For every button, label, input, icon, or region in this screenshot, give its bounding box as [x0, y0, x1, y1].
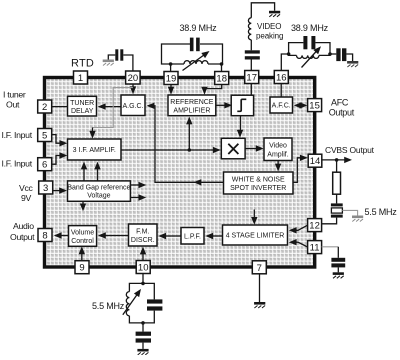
svg-text:20: 20: [128, 73, 139, 84]
capacitor C7: [147, 299, 162, 310]
ground (video peaking): [269, 11, 280, 17]
capacitor C5: [336, 48, 346, 61]
wire pin20 to AGC: [130, 85, 136, 95]
wire pin17 to limiter: [250, 84, 252, 96]
block A.G.C.: [121, 95, 145, 116]
svg-text:10: 10: [138, 263, 149, 274]
wire REFERENCE AMPLIFIER to limiter: [216, 102, 232, 108]
wire pin19 to REFERENCE AMPLIFIER: [168, 85, 174, 95]
node tank3 bottom junction: [141, 321, 145, 325]
node tank2 right junction: [328, 52, 332, 56]
wire junction to resistor R1: [336, 160, 338, 172]
svg-text:38.9 MHz: 38.9 MHz: [291, 23, 329, 33]
ground (tank 3): [137, 349, 148, 355]
svg-text:SPOT INVERTER: SPOT INVERTER: [230, 185, 286, 192]
capacitor C4: [303, 36, 315, 49]
svg-text:5: 5: [42, 131, 47, 142]
pin 9: [75, 261, 89, 274]
node tank1 left junction: [169, 62, 173, 66]
inductor L3 (variable): [297, 55, 319, 58]
wire stub into 4 STAGE LIMITER top: [251, 210, 257, 225]
svg-text:38.9 MHz: 38.9 MHz: [180, 23, 218, 33]
wire AGC feedback from WHITE &amp; NOISE: [147, 103, 224, 186]
wire C8 to ground: [142, 343, 144, 349]
resistor R1: [333, 172, 341, 194]
svg-text:Video: Video: [269, 143, 287, 150]
wire pin14 CVBS output arrow: [322, 157, 352, 163]
svg-text:11: 11: [310, 243, 320, 254]
wire pin16 to tank 2: [281, 54, 288, 71]
svg-text:6: 6: [42, 160, 47, 171]
svg-text:8: 8: [42, 231, 47, 242]
pin 16: [274, 71, 288, 84]
svg-text:Band Gap reference: Band Gap reference: [67, 184, 130, 191]
svg-text:peaking: peaking: [256, 31, 283, 40]
wire pin10 to tank 3: [142, 274, 144, 283]
tank circuit L3/C4 frame (pin 16): [289, 43, 330, 56]
block Video Amplif: [264, 138, 292, 161]
ground (pin7): [254, 302, 265, 308]
wire junction up to REFERENCE AMPLIFIER: [186, 117, 192, 150]
svg-text:18: 18: [216, 74, 227, 85]
wire limiter to multiplier: [237, 114, 243, 138]
block F.M. DISCR.: [129, 224, 158, 246]
pin 6: [38, 158, 52, 171]
svg-text:L.P.F.: L.P.F.: [184, 234, 201, 241]
tank circuit L1/C2 frame (pins 19-18): [162, 44, 223, 64]
node tank2 left junction: [287, 52, 291, 56]
pin 11: [308, 241, 322, 254]
wire tank1 to pin19: [170, 64, 172, 72]
svg-text:Amplif.: Amplif.: [267, 151, 288, 158]
svg-text:VIDEO: VIDEO: [257, 22, 281, 31]
wire Band Gap to IF amp right: [94, 162, 100, 181]
capacitor C1 (pin20 decoupling): [115, 49, 123, 60]
node tank1 right junction: [220, 62, 224, 66]
block WHITE &amp; NOISE SPOT INVERTER: [224, 172, 294, 194]
block L.P.F.: [181, 228, 204, 245]
inductor L2 (video peaking): [248, 18, 251, 40]
svg-text:Audio: Audio: [13, 221, 34, 231]
arrow of variable inductor L1: [183, 48, 212, 70]
pin 17: [245, 71, 259, 84]
svg-text:AFC: AFC: [331, 97, 349, 107]
arrow of variable inductor L4: [123, 287, 144, 315]
IC body U1: [45, 78, 315, 268]
svg-text:12: 12: [309, 221, 320, 232]
block multiplier X: [221, 138, 245, 159]
tank circuit L4/C7 frame (pin 10): [129, 283, 154, 323]
wire filter to pin12: [322, 218, 337, 224]
svg-text:Out: Out: [6, 100, 20, 110]
wire FM DISCR to Volume Control: [98, 232, 129, 238]
svg-text:9V: 9V: [21, 193, 32, 203]
inductor L4 (variable 5.5 MHz): [126, 292, 129, 316]
svg-text:2: 2: [42, 102, 47, 113]
wire pin11 to C6 (gray): [322, 246, 339, 248]
wire pin10 to FM DISCR: [140, 247, 146, 261]
svg-text:A.G.C.: A.G.C.: [122, 103, 143, 110]
wire pin16 to AFC block: [280, 84, 282, 97]
ceramic filter X1 5.5 MHz: [331, 203, 343, 217]
capacitor C2: [190, 38, 200, 52]
block A.F.C.: [270, 97, 293, 113]
svg-text:5.5 MHz: 5.5 MHz: [92, 301, 125, 311]
pin 5: [38, 129, 52, 142]
svg-text:Volume: Volume: [71, 229, 94, 236]
svg-text:3: 3: [43, 183, 48, 194]
arrow into 3 IF AMPLIF top: [89, 128, 95, 139]
wire multiplier to Video Amplif: [243, 145, 264, 151]
svg-text:4 STAGE LIMITER: 4 STAGE LIMITER: [226, 233, 285, 240]
wire Band Gap down stub: [80, 201, 86, 211]
pin 12: [308, 219, 322, 232]
wire pin3 to Band Gap: [53, 187, 68, 193]
label Vcc 9V: [19, 183, 34, 203]
svg-text:A.F.C.: A.F.C.: [272, 103, 291, 110]
pin 2: [38, 100, 52, 113]
wire R1 to ceramic filter: [336, 194, 338, 203]
block Band Gap reference Voltage: [67, 181, 130, 201]
pin 19: [164, 72, 178, 85]
wire tank3 to C8: [142, 323, 144, 332]
capacitor C8: [136, 332, 151, 343]
label AFC Output: [329, 97, 355, 117]
wire pin6 to IF amp: [52, 152, 67, 164]
wire down to C6: [337, 247, 339, 258]
svg-text:19: 19: [166, 74, 177, 85]
wire pin5 to IF amp: [52, 135, 67, 147]
pin 3: [39, 181, 53, 194]
ground (ceramic filter): [352, 216, 363, 222]
wire tank1 to pin18: [221, 64, 223, 72]
svg-text:7: 7: [257, 263, 262, 274]
wire L2 to top ground: [251, 3, 274, 18]
svg-text:TUNER: TUNER: [70, 100, 94, 107]
svg-text:9: 9: [79, 263, 84, 274]
wire pin18 to REFERENCE AMPLIFIER: [201, 85, 221, 95]
svg-text:I tuner: I tuner: [3, 90, 26, 100]
wire C6 to ground: [337, 267, 339, 272]
svg-text:Voltage: Voltage: [87, 193, 110, 200]
svg-text:Control: Control: [71, 238, 94, 245]
pin 20: [126, 71, 141, 84]
inductor L1 (variable): [184, 61, 208, 64]
svg-text:I.F. Input: I.F. Input: [2, 130, 33, 140]
wire IF amp to multiplier: [121, 147, 221, 153]
block 3 IF AMPLIF: [68, 139, 122, 160]
svg-text:17: 17: [246, 73, 257, 84]
pin 7: [252, 261, 266, 274]
svg-text:I.F. Input: I.F. Input: [2, 158, 33, 168]
wire Band Gap right stub upper: [130, 182, 146, 188]
wire pin11 to 4 STAGE LIMITER: [289, 239, 308, 247]
wire pin2 to TUNER DELAY: [52, 106, 68, 108]
label Audio Output: [10, 221, 35, 242]
wire Video Amplif to WHITE &amp; NOISE: [275, 161, 281, 172]
wire Band Gap right stub lower: [130, 194, 146, 200]
svg-text:3 I.F. AMPLIF.: 3 I.F. AMPLIF.: [73, 147, 116, 154]
wire AGC gain control to IF amp (gray): [93, 88, 133, 128]
wire pin17 to peaking capacitor: [250, 60, 252, 71]
svg-text:15: 15: [309, 101, 320, 112]
svg-text:REFERENCE: REFERENCE: [170, 99, 214, 106]
wire C3 to L2: [250, 40, 252, 51]
wire pin7 to ground: [259, 274, 261, 302]
wire LPF to FM DISCR: [158, 233, 181, 239]
svg-text:RTD: RTD: [71, 58, 94, 70]
label I tuner Out: [3, 90, 26, 110]
wire C5 to ground: [346, 54, 352, 61]
svg-text:14: 14: [310, 156, 321, 167]
svg-text:WHITE & NOISE: WHITE & NOISE: [232, 176, 285, 183]
pin 1: [74, 71, 88, 84]
node IF signal junction: [188, 148, 192, 152]
wire pin20 to decoupling capacitor: [123, 55, 133, 71]
arrow of variable inductor L3: [302, 44, 324, 67]
capacitor C6: [331, 258, 345, 268]
wire tank2 to C5: [330, 53, 336, 55]
pin 18: [215, 72, 229, 85]
svg-text:DISCR.: DISCR.: [131, 237, 155, 244]
block limiter (step symbol): [231, 95, 253, 116]
node CVBS junction: [335, 158, 339, 162]
svg-text:Output: Output: [329, 108, 355, 118]
wire Volume Control to pin8: [54, 232, 69, 238]
svg-text:Output: Output: [10, 232, 35, 242]
ground (tank 2): [347, 61, 358, 67]
svg-text:AMPLIFIER: AMPLIFIER: [173, 107, 210, 114]
pin 8: [38, 229, 52, 242]
ground (pin20 capacitor): [103, 60, 114, 66]
pin 10: [136, 261, 150, 274]
svg-text:Vcc: Vcc: [19, 183, 34, 193]
block 4 STAGE LIMITER: [223, 225, 288, 245]
wire 4 STAGE LIMITER to LPF: [205, 233, 222, 239]
wire pin9 to Volume Control: [79, 246, 85, 260]
svg-text:CVBS Output: CVBS Output: [325, 145, 375, 155]
wire AFC to pin15 bidirectional: [294, 102, 308, 108]
svg-text:F.M.: F.M.: [136, 228, 149, 235]
wire Band Gap to IF amp left: [81, 162, 87, 181]
pin 15: [308, 99, 322, 112]
pin 14: [308, 154, 322, 167]
svg-text:16: 16: [276, 73, 287, 84]
wire pin12 to 4 STAGE LIMITER: [289, 225, 308, 233]
svg-text:5.5 MHz: 5.5 MHz: [365, 207, 398, 217]
wire AGC to TUNER DELAY: [98, 103, 121, 109]
block Volume Control: [69, 226, 97, 247]
block TUNER DELAY: [68, 96, 97, 116]
label VIDEO peaking: [256, 22, 283, 40]
svg-text:DELAY: DELAY: [71, 108, 94, 115]
block REFERENCE AMPLIFIER: [168, 95, 216, 116]
ground (pin11): [333, 272, 344, 278]
svg-text:1: 1: [78, 73, 83, 84]
wire WHITE &amp; NOISE to pin14: [293, 155, 308, 183]
wire C1 to ground: [108, 55, 115, 60]
node tank3 top junction: [141, 282, 145, 286]
wire filter middle electrode to ground (gray): [342, 210, 357, 215]
capacitor C3 (video peaking): [245, 50, 260, 59]
